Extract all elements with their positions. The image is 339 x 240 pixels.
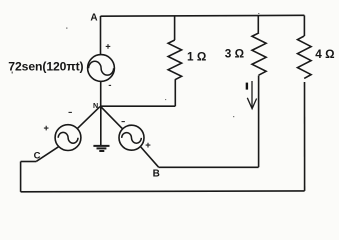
ground stem from node N — [100, 107, 102, 146]
wire: vertical from A down to source V1 top — [100, 16, 102, 55]
scan speckles — [12, 13, 260, 117]
wire: R1 bottom lead — [174, 80, 176, 106]
wire: top bus from node A to right corner — [101, 14, 305, 17]
minus dot V1 — [109, 84, 111, 86]
wire: left vertical below C — [20, 162, 22, 192]
svg-text:N: N — [93, 101, 98, 110]
svg-text:C: C — [34, 151, 41, 162]
resistor R1 1Ω zigzag — [168, 40, 182, 80]
minus sign V2 — [69, 111, 72, 113]
ground symbol bars — [93, 146, 109, 151]
wire: R2 top lead — [257, 16, 259, 33]
plus sign V1 — [106, 44, 111, 49]
svg-text:1 Ω: 1 Ω — [187, 50, 206, 64]
wire: diagonal node N to source V3 — [101, 107, 123, 129]
svg-text:B: B — [153, 168, 160, 179]
svg-text:4 Ω: 4 Ω — [315, 47, 334, 61]
wire: node N horizontal to R1 bottom — [100, 105, 175, 107]
minus sign V3 — [122, 121, 125, 123]
svg-text:3 Ω: 3 Ω — [225, 47, 244, 61]
wire: R3 top lead — [303, 15, 305, 36]
wire: right side down from R3 bottom — [304, 82, 306, 191]
wire: horizontal at C — [21, 161, 37, 163]
label I — [246, 83, 248, 90]
wire: V1 bottom to node N — [100, 81, 102, 106]
wire: bottom bus — [21, 190, 305, 193]
svg-text:72sen(120πt): 72sen(120πt) — [8, 60, 83, 74]
wire: diagonal C to source V2 — [36, 147, 58, 162]
wire: R2 bottom lead down to node B wire — [258, 76, 260, 168]
wire: horizontal B to R2 bottom — [159, 166, 259, 168]
svg-text:A: A — [90, 13, 97, 24]
plus sign V2 — [44, 126, 49, 131]
resistor R2 3Ω zigzag — [252, 33, 266, 75]
wire: diagonal source V3 to node B — [141, 147, 159, 167]
polarity marks — [44, 44, 151, 147]
wire: diagonal source V2 to node N — [77, 107, 100, 129]
resistor R3 4Ω zigzag — [298, 36, 312, 78]
source V3 (right bottom) — [119, 125, 144, 150]
source V2 (left bottom) — [55, 125, 81, 151]
source V1 72sen(120πt) — [88, 55, 115, 82]
wire: R1 top lead — [174, 16, 176, 40]
plus sign V3 — [146, 143, 151, 148]
current arrow I (down) — [247, 81, 256, 109]
